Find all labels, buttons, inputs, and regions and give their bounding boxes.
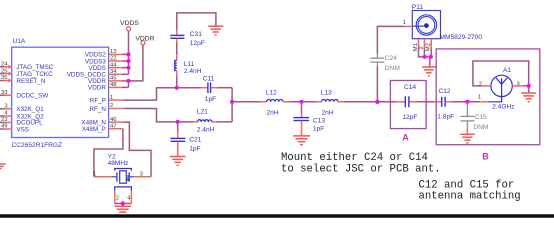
ground top mid xyxy=(208,26,223,35)
svg-text:X48M_P: X48M_P xyxy=(82,126,106,133)
wire P11 shield join xyxy=(419,49,432,67)
antenna A1 2.4GHz xyxy=(491,67,515,111)
P11 pin 2 xyxy=(419,39,425,50)
wire L11 to top rail xyxy=(176,76,178,88)
svg-text:L13: L13 xyxy=(321,90,332,97)
wire VDDR rail xyxy=(129,45,143,88)
svg-text:2nH: 2nH xyxy=(322,109,334,116)
U1A right pin 44 VDDS xyxy=(109,62,129,68)
svg-text:1.8pF: 1.8pF xyxy=(437,113,454,120)
capacitor C15 DNM shunt xyxy=(460,102,488,134)
wire C12 to C15 node xyxy=(453,101,481,103)
node VDDS-44 xyxy=(126,66,130,70)
U1A left pin 24 JTAG_TMSC xyxy=(0,62,12,70)
antenna pin 2 xyxy=(479,81,491,87)
U1A right pin 13 VDDS2 xyxy=(109,49,129,55)
crystal Y2 48MHz xyxy=(93,153,151,190)
IC U1A CC2652R1FRGZ xyxy=(12,38,109,149)
node C21/bottom-rail xyxy=(176,120,180,124)
node balun output xyxy=(230,100,234,104)
svg-text:1pF: 1pF xyxy=(205,96,216,103)
inductor L12 2nH xyxy=(261,90,290,117)
svg-text:VDDR: VDDR xyxy=(88,85,106,92)
power symbol VDDS xyxy=(120,20,139,31)
capacitor C24 DNM xyxy=(370,54,400,72)
ground under C15 xyxy=(460,134,475,143)
svg-text:1pF: 1pF xyxy=(189,146,200,153)
svg-text:RF_P: RF_P xyxy=(90,97,106,104)
svg-text:C13: C13 xyxy=(313,118,325,125)
svg-text:X32K_Q1: X32K_Q1 xyxy=(16,106,44,113)
svg-text:12pF: 12pF xyxy=(402,114,417,121)
svg-text:L11: L11 xyxy=(184,61,195,68)
node C15 xyxy=(465,100,469,104)
svg-text:1: 1 xyxy=(478,95,481,101)
svg-text:antenna matching: antenna matching xyxy=(419,191,521,203)
ground left edge partial xyxy=(0,164,6,169)
svg-text:C11: C11 xyxy=(203,75,215,82)
ground under C21 xyxy=(170,157,186,166)
U1A right pin 22 VDDS3 xyxy=(109,56,129,62)
U1A left pin 35 RESET_N xyxy=(0,75,12,83)
svg-text:1pF: 1pF xyxy=(313,126,324,133)
inductor L13 2nH xyxy=(316,90,345,117)
U1A left pin 4 X32K_Q2 xyxy=(0,111,12,117)
P11 pin M1 xyxy=(413,39,419,52)
node L11/top-rail xyxy=(175,86,179,90)
capacitor C11 1pF xyxy=(201,75,218,103)
wire X48M_N to crystal pin3 xyxy=(123,122,151,177)
wire output to L12 xyxy=(232,101,260,103)
capacitor C13 1pF shunt xyxy=(294,102,326,136)
node M-pins 2 xyxy=(423,55,427,59)
wire C31 to L11 xyxy=(176,42,178,55)
svg-text:1: 1 xyxy=(403,20,406,26)
capacitor C21 1pF shunt xyxy=(170,122,201,156)
node crystal gnd xyxy=(121,201,125,205)
wire balun merge riser xyxy=(231,88,233,122)
ground under crystal xyxy=(115,206,132,212)
node VDDS-13 xyxy=(126,52,130,56)
svg-text:RESET_N: RESET_N xyxy=(16,78,45,85)
U1A right pin 2 RF_N xyxy=(109,103,124,109)
svg-text:C21: C21 xyxy=(189,137,201,144)
P11 pin M2 xyxy=(426,39,432,52)
svg-text:DNM: DNM xyxy=(385,65,400,72)
ground under C13 xyxy=(293,136,310,145)
svg-text:2nH: 2nH xyxy=(267,109,279,116)
svg-text:RF_N: RF_N xyxy=(89,106,106,113)
svg-text:C15: C15 xyxy=(475,114,487,121)
node C13 xyxy=(299,100,303,104)
U1A right pin 48 VDDR xyxy=(109,82,129,88)
power symbol VDDR xyxy=(135,35,154,45)
ground antenna xyxy=(521,93,536,102)
wire C24 branch vertical xyxy=(376,67,378,102)
box A (PCB ant select) xyxy=(390,81,426,143)
node M-pins M2 xyxy=(429,55,433,59)
capacitor C12 1.8pF xyxy=(434,88,454,121)
U1A right pin 46 X48M_N xyxy=(109,117,124,123)
wire L13 to C24 node xyxy=(344,101,397,103)
antenna pin 3 xyxy=(512,81,523,87)
svg-text:C14: C14 xyxy=(404,84,416,91)
wire RF_N to bottom rail xyxy=(123,109,193,122)
node VDDR-45 xyxy=(126,79,130,83)
node C24 branch xyxy=(375,100,379,104)
svg-text:C12 and C15 for: C12 and C15 for xyxy=(419,179,515,191)
U1A left pin 33 DCDC_SW xyxy=(0,90,12,96)
svg-text:CC2652R1FRGZ: CC2652R1FRGZ xyxy=(12,142,63,149)
U1A right pin 47 X48M_P xyxy=(109,123,123,129)
svg-text:DNM: DNM xyxy=(473,124,488,131)
ground under P11 xyxy=(422,67,436,76)
U1A right pin 34 VDDS_DCDC xyxy=(109,69,129,75)
wire VDDS rail xyxy=(128,31,130,74)
svg-text:DCDC_SW: DCDC_SW xyxy=(16,93,48,100)
wire RF_P to top rail xyxy=(123,88,200,100)
wire C24 to P11 pin1 xyxy=(377,26,405,53)
node VDDS-22 xyxy=(126,59,130,63)
svg-text:12pF: 12pF xyxy=(190,40,205,47)
svg-text:2.4nH: 2.4nH xyxy=(184,68,202,75)
wire C31 branch top xyxy=(177,13,216,30)
U1A right pin 45 VDDR xyxy=(109,76,129,82)
U1A left pin 23 DCOUPL xyxy=(0,117,12,123)
svg-text:Mount either C24 or C14: Mount either C24 or C14 xyxy=(281,152,428,164)
inductor L11 2.4nH xyxy=(175,55,202,75)
capacitor C14 12pF xyxy=(397,84,418,121)
svg-text:P11: P11 xyxy=(412,4,424,11)
svg-text:C12: C12 xyxy=(439,88,451,95)
svg-text:B: B xyxy=(482,152,489,162)
wire L12 to C13 node xyxy=(290,101,316,103)
svg-text:VDDS: VDDS xyxy=(120,20,139,27)
crystal pin 2 xyxy=(115,191,119,204)
title block top border xyxy=(0,214,554,217)
U1A left pin 49 VSS xyxy=(0,124,12,130)
svg-text:2.4GHz: 2.4GHz xyxy=(492,104,514,111)
box B (antenna) xyxy=(436,49,540,162)
antenna pin 1 feed xyxy=(478,95,502,102)
wire antenna loop xyxy=(473,61,529,93)
wire C14 to C12 xyxy=(417,101,434,103)
svg-text:2: 2 xyxy=(116,195,119,201)
wire crystal gnd join xyxy=(115,204,132,206)
svg-text:L21: L21 xyxy=(197,108,208,115)
svg-text:48MHz: 48MHz xyxy=(108,160,129,167)
wire bottom rail right xyxy=(217,121,233,123)
svg-text:U1A: U1A xyxy=(13,38,26,45)
svg-text:C31: C31 xyxy=(190,31,202,38)
wire top rail right xyxy=(218,87,233,89)
U1A right pin 1 RF_P xyxy=(109,95,124,101)
inductor L21 2.4nH xyxy=(193,108,216,133)
svg-text:A: A xyxy=(402,133,409,143)
crystal pin 4 xyxy=(127,191,131,204)
capacitor C31 12pF xyxy=(170,30,205,47)
node antenna gnd xyxy=(527,84,531,88)
svg-text:4: 4 xyxy=(127,195,131,201)
svg-text:to select JSC or PCB ant.: to select JSC or PCB ant. xyxy=(281,163,441,175)
svg-text:2.4nH: 2.4nH xyxy=(197,127,215,134)
svg-text:MM5829-2700: MM5829-2700 xyxy=(440,34,483,41)
svg-text:L12: L12 xyxy=(266,90,277,97)
U1A left pin 3 X32K_Q1 xyxy=(0,104,12,110)
wire X48M_P to crystal pin1 xyxy=(94,129,123,177)
U1A left pin 25 JTAG_TCKC xyxy=(0,68,12,76)
svg-text:C24: C24 xyxy=(385,55,397,62)
svg-text:VSS: VSS xyxy=(16,126,29,133)
svg-text:A1: A1 xyxy=(503,67,511,74)
connector P11 MM5829-2700 xyxy=(403,4,483,41)
